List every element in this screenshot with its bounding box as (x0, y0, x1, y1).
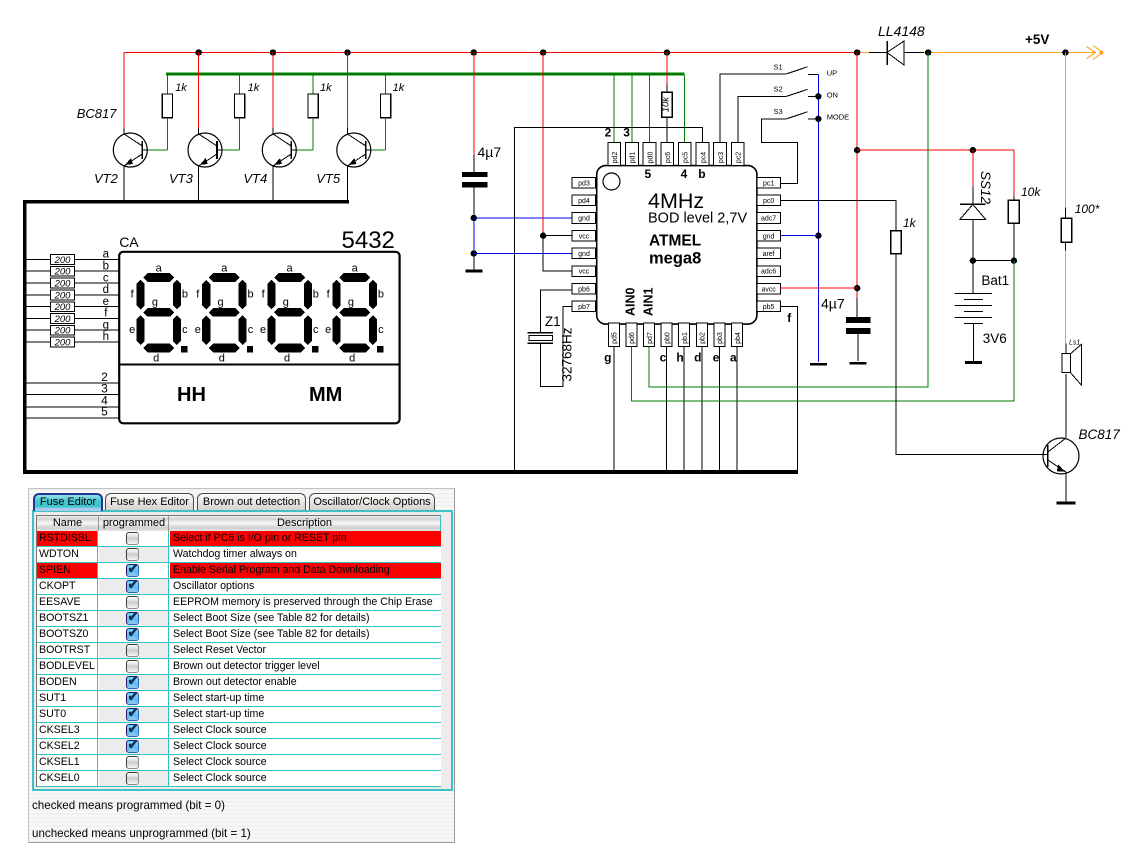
label 200 (54, 267, 72, 278)
junction (854, 49, 860, 55)
svg-text:4: 4 (681, 167, 688, 181)
svg-text:f: f (104, 308, 108, 320)
wire segment e pb3 (718, 346, 720, 470)
label 4u7 right (821, 296, 845, 312)
label 10k battery (1021, 185, 1041, 199)
svg-text:2: 2 (605, 126, 612, 140)
wire green base horizontal (371, 149, 386, 151)
svg-text:5: 5 (645, 167, 652, 181)
resistor 200 segment b (51, 266, 75, 276)
wire red collector VT5 (347, 53, 349, 129)
wire segment f pb5 (780, 306, 797, 470)
label net c (660, 351, 667, 365)
capacitor 4u7 left (462, 175, 488, 185)
svg-text:a: a (730, 351, 737, 365)
wire 100R to speaker (1064, 250, 1066, 343)
pin pb0 (661, 323, 672, 346)
junction (925, 49, 931, 55)
label net b (698, 167, 705, 181)
wire red to cap C1 (473, 53, 475, 156)
wire speaker top lead (1065, 344, 1067, 354)
pin pd4 left (572, 195, 596, 206)
pin pc4 (696, 142, 709, 165)
svg-text:pd6: pd6 (629, 332, 636, 344)
pin pd6 (626, 323, 637, 346)
junction (970, 147, 976, 153)
svg-text:pd2: pd2 (612, 152, 619, 164)
svg-text:d: d (219, 352, 225, 364)
label 1k (248, 82, 260, 94)
display body (119, 252, 399, 423)
svg-text:VT4: VT4 (243, 171, 267, 186)
+5V output arrow (1087, 46, 1104, 60)
svg-text:vcc: vcc (579, 233, 590, 240)
wire 100R bottom lead (1064, 242, 1066, 250)
wire segment h right (75, 341, 120, 343)
battery Bat1 (955, 294, 993, 324)
junction (854, 285, 860, 291)
wire red main drop (856, 53, 858, 299)
svg-text:200: 200 (54, 279, 72, 290)
wire green tap to base resistor (385, 75, 387, 94)
transistor VT3 (188, 133, 222, 167)
wire collector lead VT3 (198, 128, 200, 134)
label BC817 for VT2 (77, 106, 118, 121)
bus emitter thick horizontal (23, 200, 349, 204)
wire avcc (780, 287, 857, 289)
svg-text:g: g (103, 319, 109, 331)
wire red vcc drop (542, 53, 544, 236)
wire 10k top lead (1013, 196, 1015, 200)
wire segment e left (27, 306, 51, 308)
junction (970, 258, 976, 264)
svg-text:S2: S2 (774, 85, 783, 94)
wire segment g pd5 (613, 346, 615, 470)
wire collector lead VT4 (272, 128, 274, 134)
label g (103, 319, 109, 331)
svg-text:200: 200 (54, 314, 72, 325)
label Bat1 (981, 273, 1009, 288)
label VT3 (169, 171, 194, 186)
svg-text:d: d (103, 284, 109, 296)
wire cap C1 to first gnd dot (473, 187, 475, 218)
label 200 (54, 314, 72, 325)
ground symbol (465, 270, 482, 273)
svg-text:pc6: pc6 (665, 152, 672, 163)
label net a (730, 351, 737, 365)
svg-text:g: g (283, 297, 289, 309)
pin aref right (757, 248, 781, 259)
display digit 2 segments (202, 273, 253, 352)
resistor 100* (1061, 218, 1071, 242)
wire segment a left (27, 258, 51, 260)
svg-text:e: e (195, 324, 201, 336)
pin pd2 (608, 142, 621, 165)
pin pb5 right (757, 301, 781, 312)
svg-text:pb3: pb3 (717, 332, 724, 344)
label VT5 (316, 171, 341, 186)
label AIN1 rotated (641, 287, 655, 316)
svg-text:pd3: pd3 (578, 180, 590, 187)
pin pc1 right (757, 177, 781, 188)
svg-text:b: b (698, 167, 705, 181)
label net 4 (681, 167, 688, 181)
svg-text:pd5: pd5 (612, 332, 619, 344)
label Ls1 (1069, 340, 1080, 347)
wire red 10k drop (1013, 150, 1015, 196)
svg-text:a: a (287, 262, 294, 274)
wire 1k to BC817 base (896, 254, 1043, 455)
label S1 (774, 63, 783, 72)
svg-text:Bat1: Bat1 (981, 273, 1009, 288)
resistor 200 segment a (51, 255, 75, 265)
label 4u7 left (478, 144, 502, 160)
svg-text:pb5: pb5 (763, 304, 775, 311)
pin pb3 (714, 323, 725, 346)
ground symbol (810, 363, 827, 366)
wire pc2 to S2 (738, 96, 787, 142)
wire red branch to SS12 and 10k (857, 149, 1014, 151)
wire battery to gnd (973, 324, 975, 362)
junction (1062, 49, 1068, 55)
wire vcc pin2 (543, 236, 572, 271)
wire to battery (972, 261, 974, 293)
svg-text:b: b (378, 288, 384, 300)
svg-text:e: e (260, 324, 266, 336)
svg-text:b: b (313, 288, 319, 300)
svg-text:aref: aref (763, 251, 775, 258)
svg-text:gnd: gnd (578, 251, 590, 258)
wire segment c right (75, 282, 120, 284)
svg-text:HH: HH (177, 384, 206, 406)
label 200 (54, 337, 72, 348)
wire red collector VT4 (272, 53, 274, 129)
svg-text:200: 200 (54, 337, 72, 348)
wire green resistor to base (312, 118, 314, 150)
wire segment h pb1 (683, 346, 685, 470)
junction (471, 250, 477, 256)
svg-text:200: 200 (54, 255, 72, 266)
svg-text:pb1: pb1 (682, 332, 689, 344)
wire speaker to collector (1065, 374, 1067, 437)
wire segment b route (515, 128, 703, 470)
label net 5 (645, 167, 652, 181)
display divider (119, 364, 399, 366)
wire segment g right (75, 329, 120, 331)
svg-text:UP: UP (827, 69, 837, 78)
junction (815, 116, 821, 122)
svg-text:adc7: adc7 (761, 216, 776, 223)
wire blue between gnd dots (473, 218, 475, 253)
ground symbol (965, 361, 982, 364)
wire emitter VT2 to bus (123, 166, 125, 200)
svg-text:MM: MM (309, 384, 342, 406)
wire segment c pb0 (666, 346, 668, 470)
pin gnd left (572, 213, 596, 224)
wire green tap to base resistor (166, 75, 168, 94)
display digit 4 segment labels (325, 262, 384, 364)
label AIN0 rotated (624, 287, 638, 316)
wire segment e right (75, 306, 120, 308)
wire red to SS12 (972, 150, 974, 187)
wire orange to 100R (1064, 53, 1066, 208)
svg-text:adc6: adc6 (761, 269, 776, 276)
svg-text:pc3: pc3 (718, 152, 725, 163)
svg-text:b: b (103, 260, 109, 272)
resistor 1k base of transistor (162, 94, 172, 118)
wire junction horizontal (973, 260, 1014, 262)
junction (540, 233, 546, 239)
label HH (177, 384, 206, 406)
svg-text:pc5: pc5 (683, 152, 690, 163)
svg-text:b: b (182, 288, 188, 300)
label 2 (101, 370, 108, 384)
svg-text:pb6: pb6 (578, 286, 590, 293)
tab Oscillator/Clock Options (309, 493, 435, 510)
resistor 1k base of transistor (308, 94, 318, 118)
svg-text:5: 5 (101, 405, 108, 419)
wire common 2 (27, 382, 120, 384)
wire SS12 cathode lead (972, 187, 974, 204)
wire blue gnd pin lower (474, 252, 572, 254)
label 4 (101, 394, 108, 408)
wire common 5 (27, 417, 120, 419)
svg-text:VT2: VT2 (94, 171, 119, 186)
label ATMEL (649, 233, 701, 250)
wire SS12 anode to junction (972, 219, 974, 260)
svg-text:ATMEL: ATMEL (649, 233, 701, 250)
svg-text:mega8: mega8 (649, 250, 701, 268)
svg-text:f: f (787, 311, 792, 325)
pin pc6 (661, 142, 674, 165)
svg-text:3V6: 3V6 (983, 331, 1007, 346)
wire green tap to pin pd1 (631, 75, 633, 142)
wire cap C1 top lead (473, 155, 475, 172)
label 200 (54, 326, 72, 337)
svg-text:S1: S1 (774, 63, 783, 72)
svg-text:Z1: Z1 (545, 314, 561, 329)
wire 10k to junction (1013, 223, 1015, 260)
junction (471, 215, 477, 221)
bus bottom thick horizontal (23, 470, 798, 474)
label ON (827, 91, 838, 100)
diode SS12 (960, 204, 986, 219)
svg-text:a: a (221, 262, 228, 274)
svg-text:gnd: gnd (578, 216, 590, 223)
wire +5V rail after diode orange (924, 52, 1095, 54)
svg-text:1k: 1k (393, 82, 405, 94)
wire +5V rail orange segment into diode (857, 52, 869, 54)
svg-text:SS12: SS12 (978, 171, 993, 205)
svg-text:1k: 1k (903, 216, 917, 230)
wire cap C2 top lead (856, 298, 858, 317)
svg-text:vcc: vcc (579, 269, 590, 276)
svg-text:pd0: pd0 (647, 152, 654, 164)
svg-text:a: a (103, 249, 110, 261)
svg-text:pc2: pc2 (736, 152, 743, 163)
bus green thick (166, 73, 685, 76)
crystal Z1 (528, 333, 553, 344)
pin pd3 left (572, 177, 596, 188)
resistor 1k base (891, 231, 902, 254)
pin avcc right (757, 283, 781, 294)
wire segment h left (27, 341, 51, 343)
svg-text:e: e (713, 351, 720, 365)
label LL4148 (878, 23, 925, 39)
svg-text:g: g (348, 297, 354, 309)
svg-text:5432: 5432 (342, 227, 395, 254)
wire diode anode lead (869, 52, 887, 54)
svg-text:+5V: +5V (1025, 32, 1049, 47)
pin pc3 (714, 142, 727, 165)
label 3V6 (983, 331, 1007, 346)
resistor 200 segment f (51, 314, 75, 324)
junction (196, 49, 202, 55)
svg-text:BC817: BC817 (77, 106, 118, 121)
wire green tap to pin pc5 (684, 75, 686, 142)
pin gnd left (572, 248, 596, 259)
wire green AIN0 sense (631, 261, 1014, 401)
pin adc6 right (757, 266, 781, 277)
svg-text:1k: 1k (175, 82, 187, 94)
svg-text:pb0: pb0 (664, 332, 671, 344)
display digit 1 segment labels (129, 262, 188, 364)
transistor VT4 (262, 133, 296, 167)
label 200 (54, 290, 72, 301)
label c (103, 272, 109, 284)
transistor Q2 BC817 (1043, 438, 1079, 474)
junction (854, 147, 860, 153)
label MODE (827, 113, 850, 122)
wire to ground (473, 253, 475, 271)
wire green base horizontal (148, 149, 168, 151)
svg-text:d: d (153, 352, 159, 364)
pin pd0 (643, 142, 656, 165)
label net h (676, 351, 683, 365)
wire common 3 (27, 394, 120, 396)
wire green AIN1 sense (649, 53, 928, 387)
label BC817 bottom (1079, 427, 1121, 442)
label 5 (101, 405, 108, 419)
pin pb4 (732, 323, 743, 346)
wire red collector VT2 (123, 53, 125, 129)
ground symbol (849, 362, 866, 365)
wire segment f right (75, 317, 120, 319)
label 200 (54, 302, 72, 313)
label 10k rotated (660, 96, 671, 113)
svg-text:1k: 1k (320, 82, 332, 94)
ground symbol (1057, 501, 1076, 504)
label a (103, 249, 110, 261)
pin adc7 right (757, 213, 781, 224)
label 1k base (903, 216, 917, 230)
display digit 3 segments (268, 273, 319, 352)
label 32768Hz rotated (560, 327, 575, 381)
resistor 200 segment h (51, 337, 75, 347)
junction (540, 49, 546, 55)
wire segment f left (27, 317, 51, 319)
resistor 200 segment d (51, 290, 75, 300)
wire green base horizontal (297, 149, 313, 151)
label b (103, 260, 109, 272)
svg-text:c: c (378, 324, 384, 336)
wire pb6 to crystal (540, 290, 572, 333)
svg-text:pc1: pc1 (763, 180, 774, 187)
resistor 10k reset pullup (662, 92, 673, 117)
pin pb2 (696, 323, 707, 346)
label net g (604, 351, 611, 365)
wire pc0 to base resistor (780, 200, 896, 230)
tab Fuse Editor (selected) (33, 493, 103, 511)
svg-text:a: a (352, 262, 359, 274)
wire +5V rail red segment (124, 52, 858, 54)
svg-text:g: g (604, 351, 611, 365)
wire segment g left (27, 329, 51, 331)
wire green resistor to base (385, 118, 387, 150)
svg-text:AIN0: AIN0 (624, 287, 638, 316)
svg-text:pd4: pd4 (578, 198, 590, 205)
svg-text:LL4148: LL4148 (878, 23, 925, 39)
svg-text:4µ7: 4µ7 (821, 296, 845, 312)
svg-text:4µ7: 4µ7 (478, 144, 502, 160)
wire reset pullup lead (666, 85, 668, 93)
switch S2 (787, 89, 819, 96)
resistor 1k base of transistor (235, 94, 245, 118)
label CA (119, 234, 139, 250)
svg-text:10k: 10k (660, 96, 671, 113)
wire red collector VT3 (198, 53, 200, 129)
wire emitter VT3 to bus (198, 166, 200, 200)
label +5V (1025, 32, 1049, 47)
svg-text:gnd: gnd (763, 233, 775, 240)
svg-text:pc4: pc4 (700, 152, 707, 163)
wire green tap to base resistor (312, 75, 314, 94)
label 100* (1075, 202, 1100, 216)
svg-text:e: e (129, 324, 135, 336)
wire pc1 to S3 (762, 119, 798, 184)
svg-text:BC817: BC817 (1079, 427, 1121, 442)
wire collector lead VT2 (123, 128, 125, 134)
wire green resistor to base (166, 118, 168, 150)
resistor 200 segment c (51, 278, 75, 288)
svg-text:c: c (313, 324, 319, 336)
IC pin1 marker circle (603, 173, 620, 190)
wire vcc pin1 (543, 235, 572, 237)
wire segment d left (27, 294, 51, 296)
resistor 200 segment g (51, 325, 75, 335)
wire segment a pb4 (736, 346, 738, 470)
svg-text:a: a (156, 262, 163, 274)
svg-text:VT5: VT5 (316, 171, 341, 186)
bus left thick vertical (23, 200, 27, 474)
svg-text:c: c (248, 324, 254, 336)
svg-text:d: d (349, 352, 355, 364)
wire emitter VT5 to bus (347, 166, 349, 200)
label VT2 (94, 171, 119, 186)
tab Fuse Hex Editor (105, 493, 194, 510)
wire emitter VT4 to bus (272, 166, 274, 200)
display digit 4 segments (333, 273, 384, 352)
pin pb1 (679, 323, 690, 346)
junction (1011, 258, 1017, 264)
svg-text:e: e (103, 296, 109, 308)
svg-text:3: 3 (623, 126, 630, 140)
svg-text:c: c (182, 324, 188, 336)
svg-text:pc0: pc0 (763, 198, 774, 205)
junction (815, 93, 821, 99)
svg-text:h: h (676, 351, 683, 365)
svg-text:MODE: MODE (827, 113, 850, 122)
